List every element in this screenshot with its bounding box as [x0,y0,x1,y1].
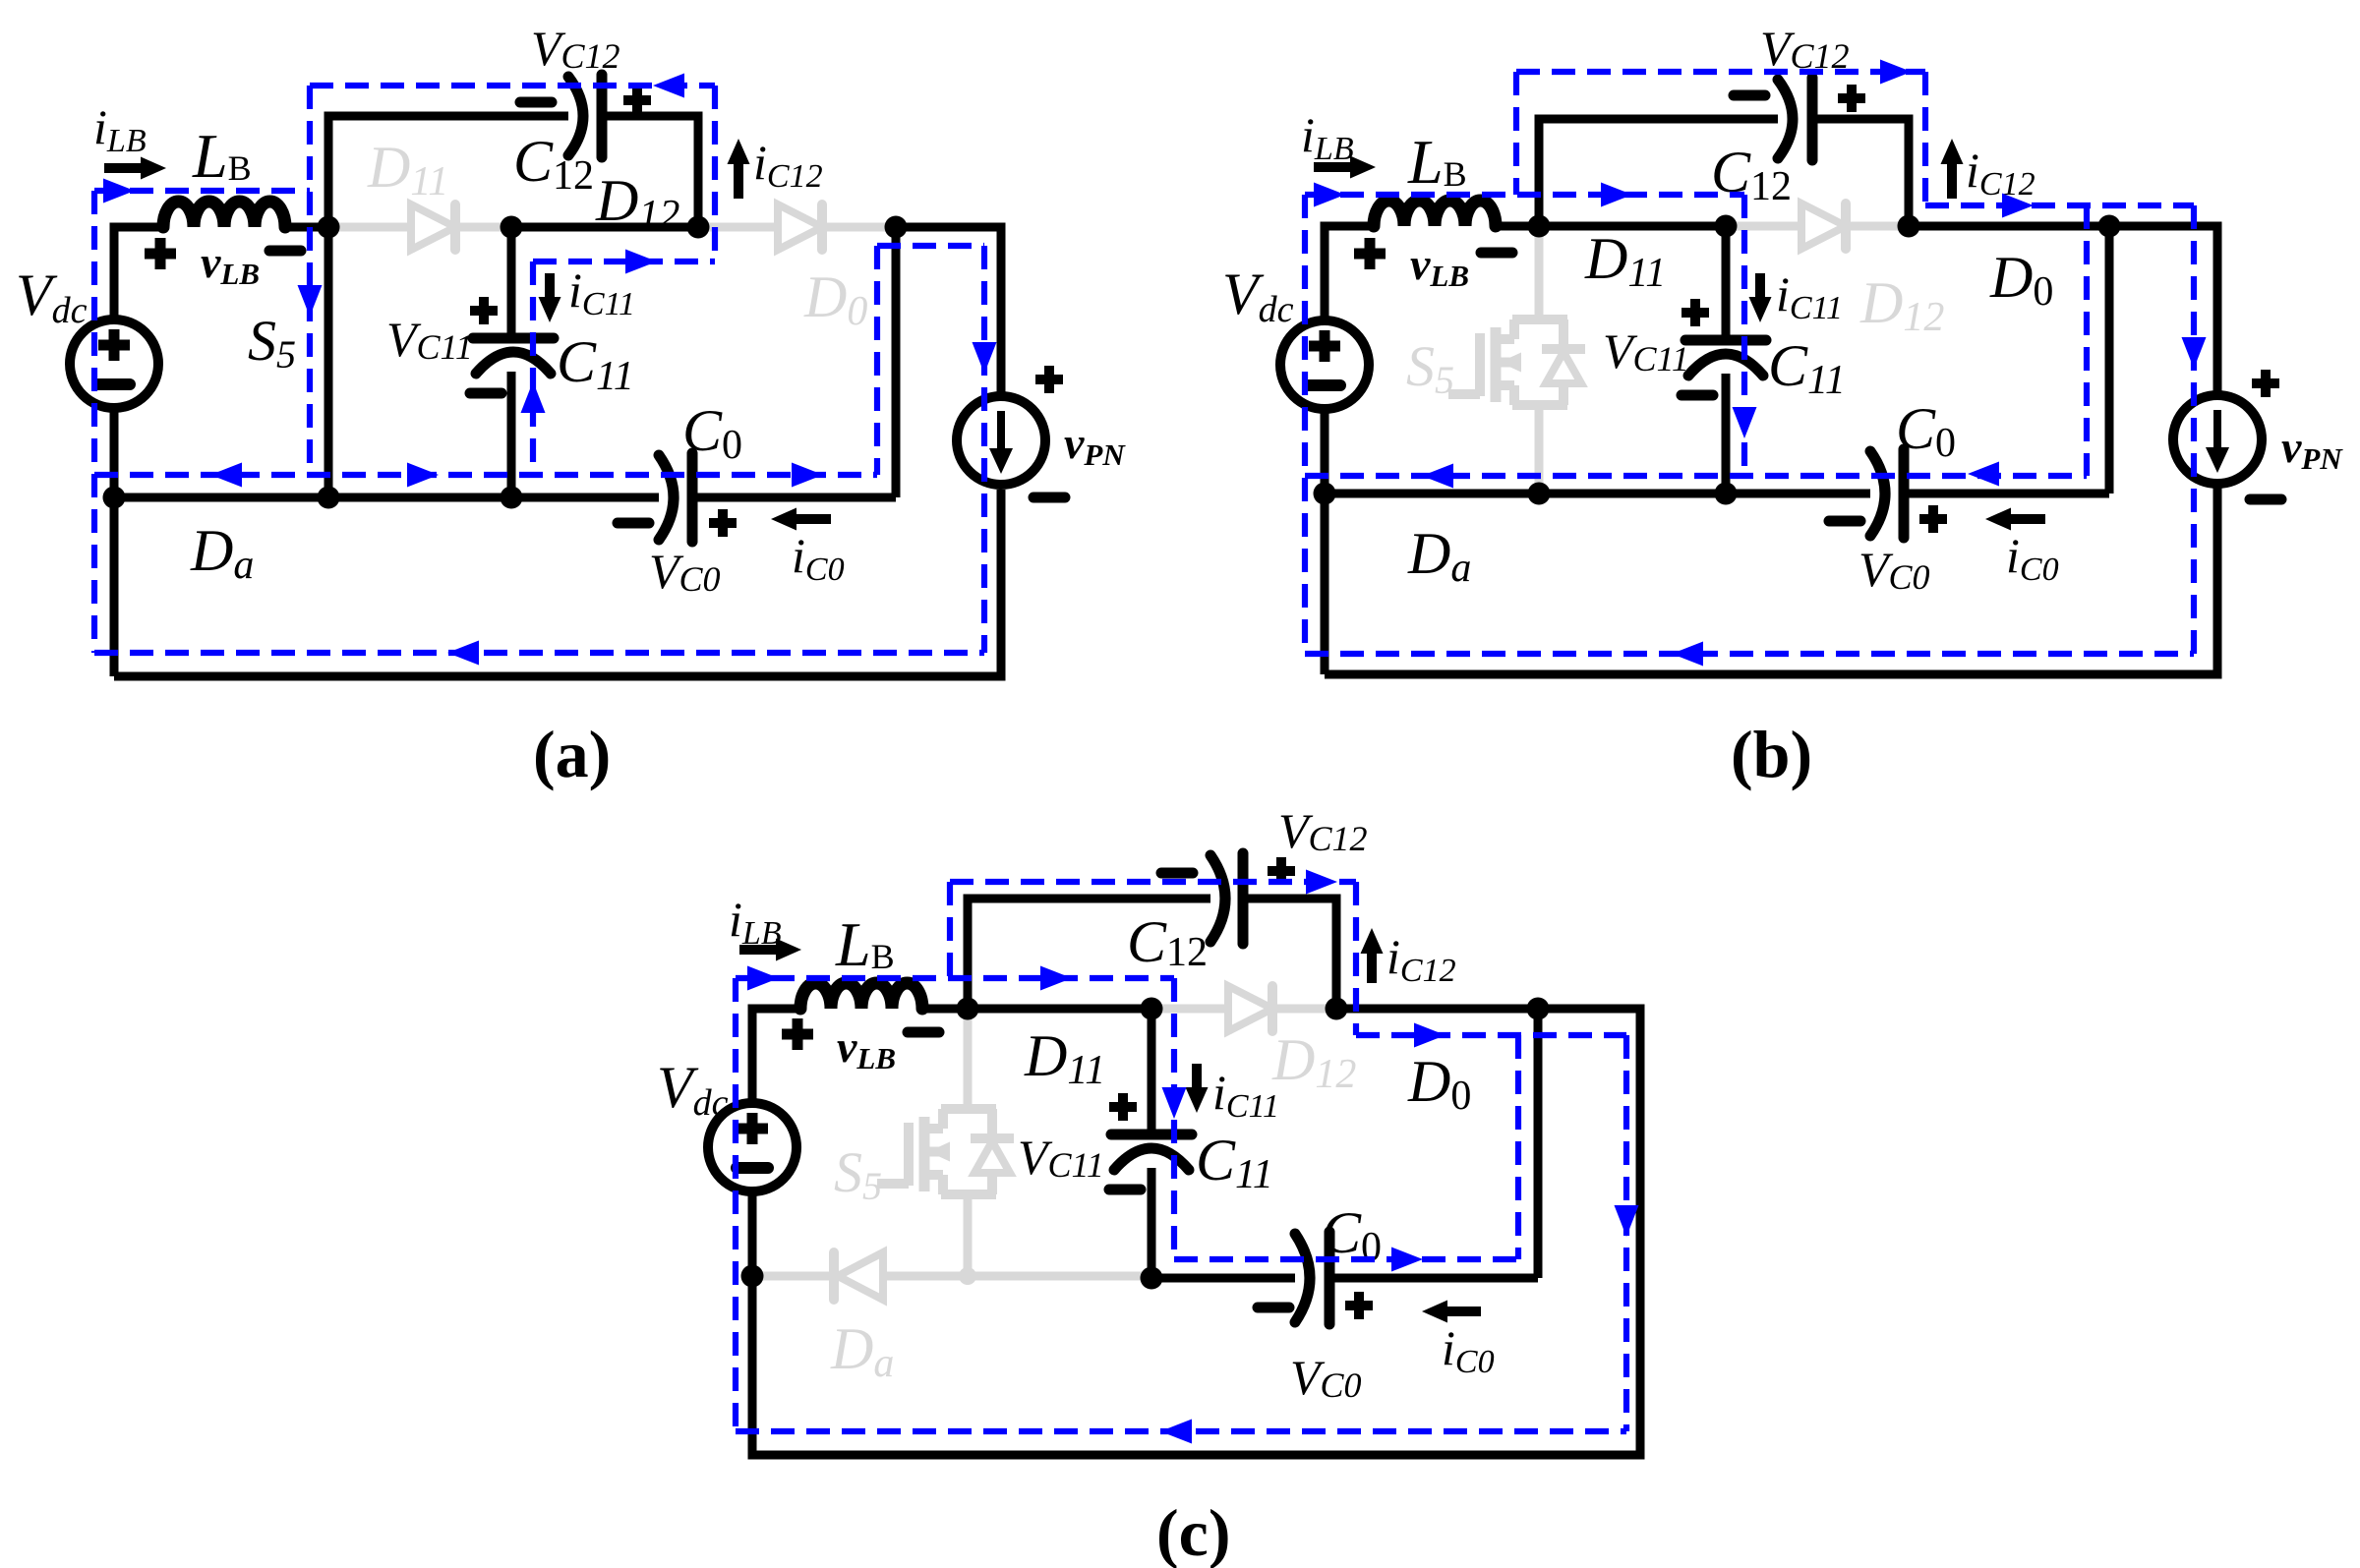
diode D11 (conducting) wire node A to node B [968,1005,1151,1014]
wire C12 to node C [1243,899,1336,1009]
inductor LB [1374,201,1496,226]
switch S5 (off, gray MOSFET) [1535,226,1544,319]
blue loop: input Vdc-LB-S5 [91,191,97,653]
inductor LB [163,202,285,227]
node D [1527,998,1550,1020]
voltage source Vdc [708,1103,796,1191]
mid wire with C0 [114,494,659,502]
label iC11 with arrow [1192,1064,1202,1087]
node A [957,998,979,1020]
wire C0 to node D leg [1329,1274,1538,1283]
blue loop: outer Vdc-LB [733,978,738,1431]
bottom return wire [1325,487,2217,674]
diode Da (conducting) bottom left wire [110,410,119,676]
label iC0 with arrow [1447,1307,1481,1316]
svg-text:(a): (a) [533,717,611,791]
voltage source Vdc [1280,320,1369,409]
node C [687,216,710,239]
capacitor C12 [1210,855,1225,942]
diode D12 (blocked, gray) [1726,222,1909,231]
node B [1715,215,1738,238]
wire top branch to C12 [328,116,568,227]
blue loop: C12 top branch [947,882,953,978]
switch S5 (on) wire [324,227,333,497]
voltage source Vdc [70,319,158,408]
capacitor C0 [659,455,674,540]
wire top branch to C12 [1539,119,1778,226]
label iC0 with arrow [2011,514,2045,524]
polarity and label vLB [782,1029,813,1040]
node mid-left junctions [103,487,126,509]
wire C0 to node D leg [692,494,896,502]
label iC12 with arrow [1367,954,1377,983]
label iC0 with arrow [796,514,831,524]
capacitor C12 [1778,80,1793,158]
node C [1898,215,1920,238]
outer loop wire [752,1009,1640,1455]
polarity and label vLB [145,249,176,260]
node A [1528,215,1551,238]
junction dots [741,1265,764,1288]
wire top branch to C12 [968,899,1210,1009]
diode D11 (conducting) wire node A to node B [1539,222,1726,231]
node D [2098,215,2121,238]
blue loop: output leg [2084,205,2090,476]
svg-text:(b): (b) [1731,717,1812,791]
node D [885,216,908,239]
blue loop: input charge C11 [1302,195,1308,654]
diode D0 (conducting) wire node C to node D [1909,222,2109,231]
wire C12 to node C [1812,119,1909,226]
node B [501,216,523,239]
diode D0 (conducting) wire node C to node D [1336,1005,1538,1014]
wire inductor to node A [922,1005,968,1014]
label iC12 with arrow [1947,164,1957,199]
blue loop: C12 top branch [1513,72,1519,195]
inductor LB [800,983,922,1009]
current source vPN [2173,395,2262,484]
output wire node D to vPN [896,227,1001,392]
node B [1141,998,1163,1020]
junction dots mid row [1314,483,1336,505]
capacitor C11 [1722,226,1731,340]
blue loop: C12 top branch [310,83,715,88]
diode D12 (conducting) wire node B to node C [511,223,698,232]
diode Da (blocked, gray) [752,1272,1151,1281]
mid wire with C0 [1325,490,1870,498]
polarity and label vLB [1354,249,1386,260]
current source vPN [957,396,1045,485]
diode D12 (blocked, gray) [1151,1005,1336,1014]
switch S5 (off, gray MOSFET) [964,1009,973,1109]
output wire node D to vPN [2109,226,2217,392]
diode Da (conducting) bottom left wire [1321,410,1329,674]
label iC11 with arrow [1755,273,1765,297]
capacitor C11 [1148,1009,1156,1134]
bottom return wire [114,490,1001,676]
blue loop: mid row [94,472,877,478]
mid wire with C0 [1151,1274,1295,1283]
capacitor C12 [568,77,583,155]
svg-text:(c): (c) [1156,1495,1230,1568]
blue loop: outer return [1623,1035,1629,1431]
wire Vdc to inductor [752,1009,800,1101]
capacitor C0 [1295,1234,1310,1322]
node A [318,216,340,239]
blue loop: C11-C0 branch [1171,978,1177,1259]
diode D0 (blocked, gray) [698,223,896,232]
wire Vdc to inductor [114,227,163,318]
label iC11 with arrow [545,273,555,297]
node C [1326,998,1348,1020]
wire C0 to node D leg [1904,490,2109,498]
diode D11 (blocked, gray) [328,223,511,232]
wire inductor to node A [285,223,328,232]
blue loop: output vPN [981,246,987,653]
capacitor C11 [507,227,516,338]
wire C12 to node C [602,116,698,227]
capacitor C0 [1870,451,1885,536]
label iC12 with arrow [734,164,743,199]
wire inductor to node A [1496,222,1539,231]
wire Vdc to inductor [1325,226,1374,319]
